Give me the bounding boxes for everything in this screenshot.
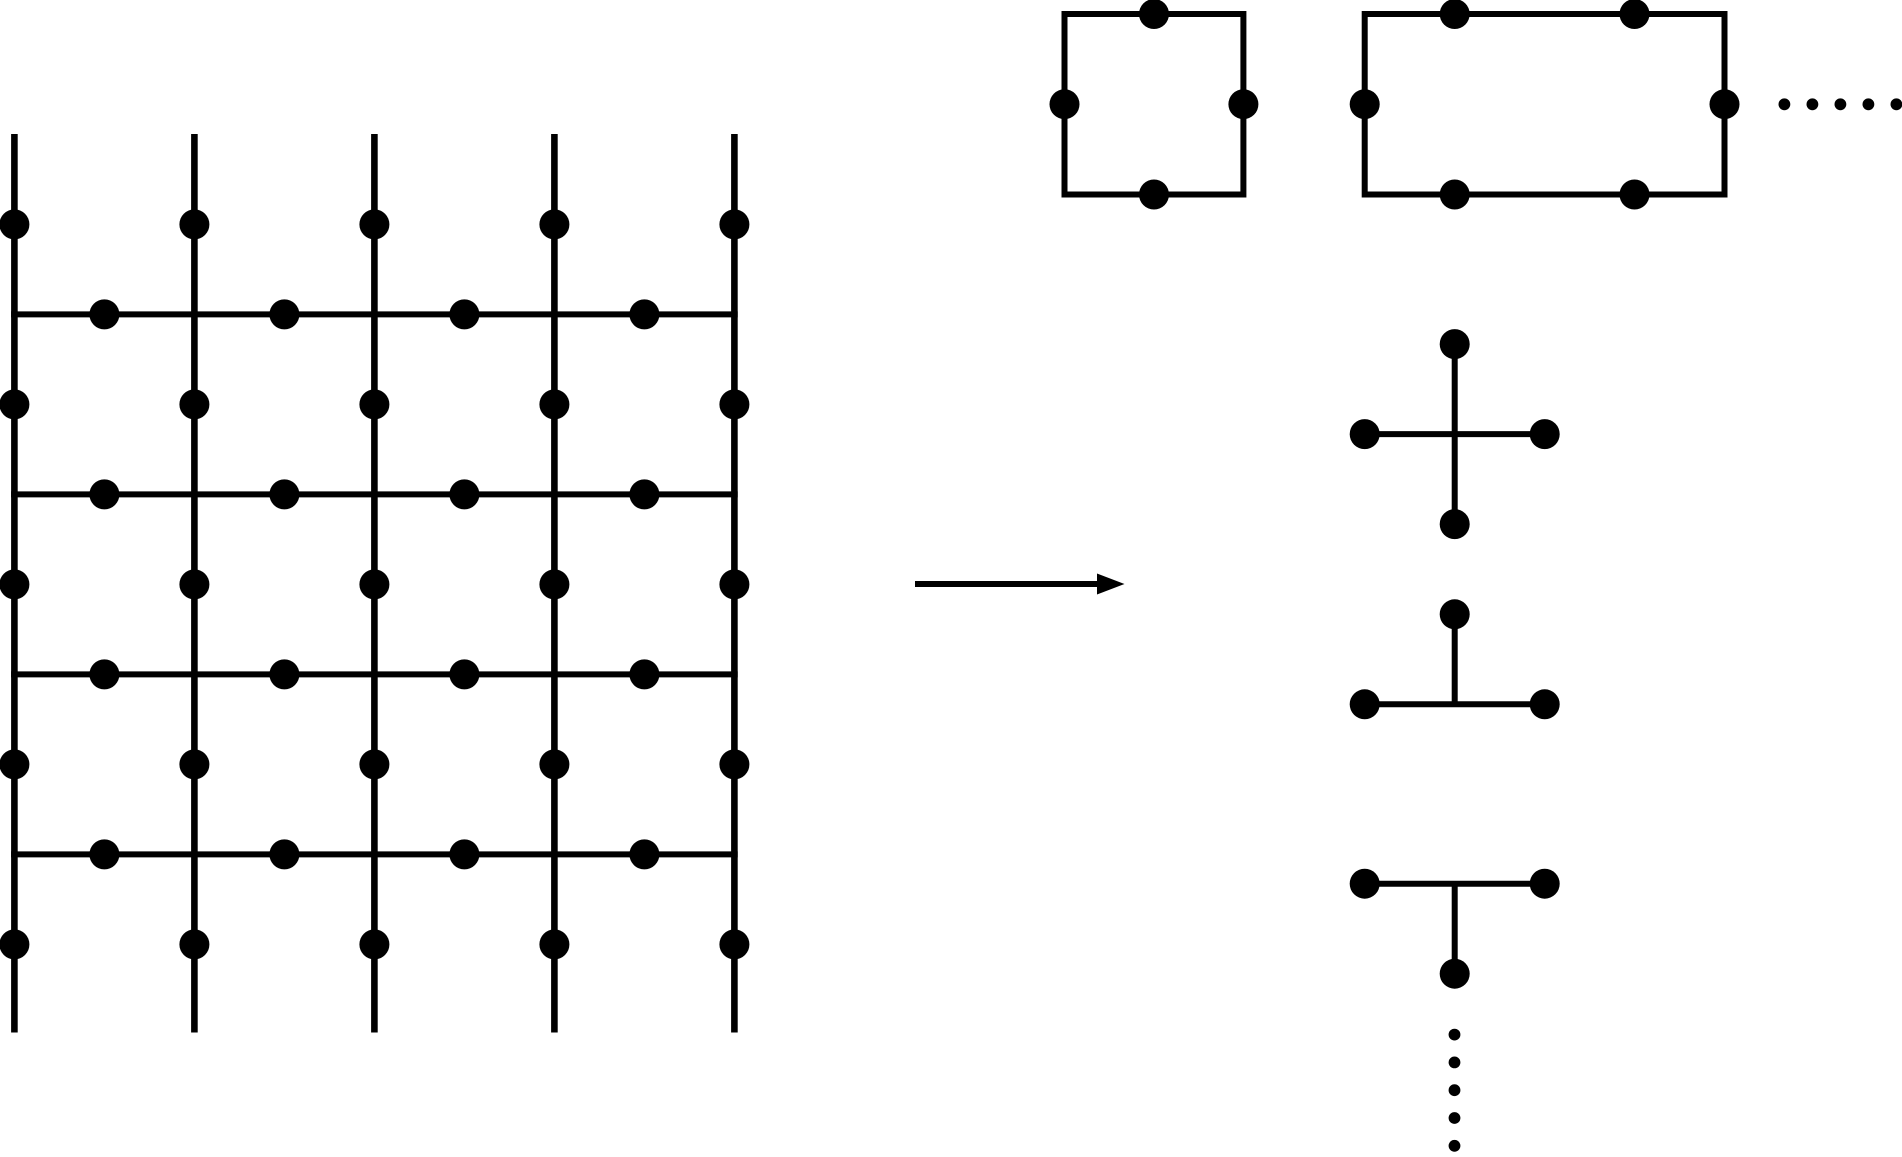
wire: square 4-cycle outline <box>1065 14 1244 195</box>
node: square vertex dot right <box>1228 89 1258 119</box>
node: grid vertex dot on H3 col 2 <box>269 659 299 689</box>
node: square vertex dot top <box>1139 0 1169 29</box>
node: grid vertex dot on V1 row 1 <box>0 209 29 239</box>
node: grid vertex dot on H3 col 3 <box>449 659 479 689</box>
node: grid vertex dot on H1 col 2 <box>269 299 299 329</box>
node: grid vertex dot on V2 row 3 <box>179 569 209 599</box>
node: grid vertex dot on V3 row 4 <box>359 749 389 779</box>
node: ellipsis dot h2 <box>1807 98 1819 110</box>
node: ellipsis dot h5 <box>1891 98 1902 110</box>
node: grid vertex dot on V4 row 3 <box>539 569 569 599</box>
node: grid vertex dot on V1 row 5 <box>0 929 29 959</box>
node: ellipsis dot h4 <box>1863 98 1875 110</box>
node: grid vertex dot on V3 row 1 <box>359 209 389 239</box>
node: up-tack vertex dot right <box>1530 689 1560 719</box>
node: grid vertex dot on V2 row 1 <box>179 209 209 239</box>
wire: grid vertical line V1 <box>11 134 18 1033</box>
node: grid vertex dot on H4 col 2 <box>269 839 299 869</box>
node: ellipsis dot v4 <box>1449 1112 1461 1124</box>
node: grid vertex dot on V5 row 1 <box>719 209 749 239</box>
wire: grid horizontal line H1 <box>11 311 738 317</box>
node: grid vertex dot on V4 row 4 <box>539 749 569 779</box>
wire: tee vertical edge <box>1452 884 1458 974</box>
node: grid vertex dot on V3 row 3 <box>359 569 389 599</box>
node: grid vertex dot on H1 col 3 <box>449 299 479 329</box>
node: grid vertex dot on V1 row 4 <box>0 749 29 779</box>
node: cross vertex dot left <box>1350 419 1380 449</box>
wire: grid vertical line V5 <box>731 134 738 1033</box>
node: grid vertex dot on H2 col 2 <box>269 479 299 509</box>
node: cross vertex dot right <box>1530 419 1560 449</box>
node: rectangle vertex dot top-left <box>1440 0 1470 29</box>
node: grid vertex dot on H2 col 3 <box>449 479 479 509</box>
node: ellipsis dot v1 <box>1449 1029 1461 1041</box>
node: cross vertex dot top <box>1440 329 1470 359</box>
node: tee vertex dot left <box>1350 869 1380 899</box>
node: ellipsis dot v3 <box>1449 1084 1461 1096</box>
node: grid vertex dot on V4 row 5 <box>539 929 569 959</box>
node: grid vertex dot on V5 row 5 <box>719 929 749 959</box>
node: grid vertex dot on H3 col 4 <box>629 659 659 689</box>
node: grid vertex dot on V3 row 5 <box>359 929 389 959</box>
node: tee vertex dot bottom <box>1440 959 1470 989</box>
node: rectangle vertex dot right <box>1710 89 1740 119</box>
node: grid vertex dot on V3 row 2 <box>359 389 389 419</box>
node: grid vertex dot on V1 row 3 <box>0 569 29 599</box>
node: up-tack vertex dot left <box>1350 689 1380 719</box>
node: grid vertex dot on V4 row 1 <box>539 209 569 239</box>
wire: cross vertical edge <box>1452 344 1458 524</box>
wire: grid horizontal line H2 <box>11 491 738 497</box>
wire: up-tack vertical edge <box>1452 614 1458 704</box>
wire: grid vertical line V4 <box>551 134 558 1033</box>
wire: tee horizontal edge <box>1365 881 1545 887</box>
node: square vertex dot left <box>1050 89 1080 119</box>
node: grid vertex dot on H1 col 1 <box>89 299 119 329</box>
node: grid vertex dot on H4 col 1 <box>89 839 119 869</box>
node: grid vertex dot on V5 row 2 <box>719 389 749 419</box>
wire: grid vertical line V2 <box>191 134 198 1033</box>
node: rectangle vertex dot bottom-right <box>1620 180 1650 210</box>
node: grid vertex dot on H4 col 3 <box>449 839 479 869</box>
node: cross vertex dot bottom <box>1440 509 1470 539</box>
node: grid vertex dot on V1 row 2 <box>0 389 29 419</box>
node: square vertex dot bottom <box>1139 180 1169 210</box>
node: grid vertex dot on H2 col 4 <box>629 479 659 509</box>
node: ellipsis dot h1 <box>1779 98 1791 110</box>
node: grid vertex dot on V5 row 4 <box>719 749 749 779</box>
wire: up-tack horizontal edge <box>1365 701 1545 707</box>
wire: cross horizontal edge <box>1365 431 1545 437</box>
wire: grid horizontal line H3 <box>11 671 738 677</box>
node: grid vertex dot on V4 row 2 <box>539 389 569 419</box>
node: ellipsis dot v2 <box>1449 1057 1461 1069</box>
node: grid vertex dot on V5 row 3 <box>719 569 749 599</box>
node: grid vertex dot on H2 col 1 <box>89 479 119 509</box>
node: rectangle vertex dot bottom-left <box>1440 180 1470 210</box>
node: up-tack vertex dot top <box>1440 599 1470 629</box>
node: rectangle vertex dot top-right <box>1620 0 1650 29</box>
node: grid vertex dot on H4 col 4 <box>629 839 659 869</box>
node: grid vertex dot on H3 col 1 <box>89 659 119 689</box>
node: ellipsis dot v5 <box>1449 1140 1461 1152</box>
node: tee vertex dot right <box>1530 869 1560 899</box>
node: ellipsis dot h3 <box>1835 98 1847 110</box>
node: rectangle vertex dot left <box>1350 89 1380 119</box>
node: grid vertex dot on H1 col 4 <box>629 299 659 329</box>
arrow: maps grid to pieces <box>915 574 1125 595</box>
node: grid vertex dot on V2 row 2 <box>179 389 209 419</box>
node: grid vertex dot on V2 row 5 <box>179 929 209 959</box>
wire: grid horizontal line H4 <box>11 851 738 857</box>
wire: grid vertical line V3 <box>371 134 378 1033</box>
wire: rectangle 6-cycle outline <box>1365 14 1725 195</box>
node: grid vertex dot on V2 row 4 <box>179 749 209 779</box>
